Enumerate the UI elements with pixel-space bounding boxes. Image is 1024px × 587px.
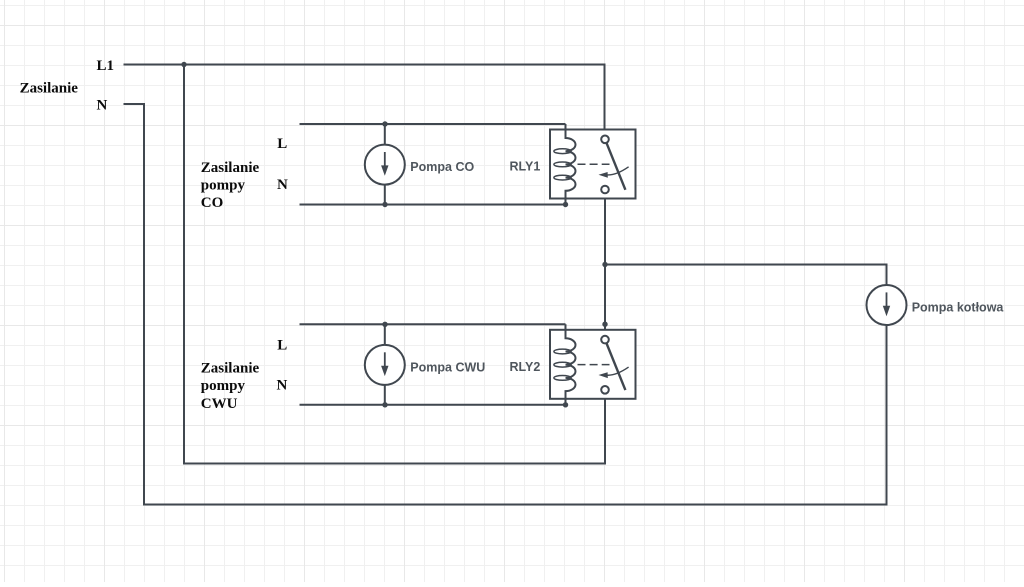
relay RLY2 switch blade: [606, 343, 625, 390]
relay RLY2 actuation arrow: [607, 367, 629, 375]
svg-text:RLY1: RLY1: [510, 160, 541, 174]
relay RLY1 top terminal: [601, 136, 609, 144]
relay RLY2 bottom terminal: [601, 386, 609, 394]
svg-text:RLY2: RLY2: [510, 360, 541, 374]
wire L1 rail: [124, 65, 605, 136]
svg-text:L: L: [277, 338, 287, 354]
relay RLY1 actuation arrow: [607, 167, 629, 175]
svg-text:L: L: [277, 136, 287, 152]
relay RLY2 coil: [566, 324, 576, 405]
wire N of Pompa CWU: [300, 404, 566, 406]
relay RLY2 dashed link: [578, 364, 610, 366]
wire stub pump CO top: [384, 124, 386, 145]
wire stub pump CO bottom: [384, 184, 386, 204]
node junction mid rail: [602, 262, 607, 267]
wire stub pump CWU bottom: [384, 385, 386, 405]
svg-text:N: N: [277, 177, 288, 193]
svg-text:Pompa CWU: Pompa CWU: [410, 361, 485, 375]
relay RLY2 body: [550, 330, 636, 399]
svg-text:L1: L1: [97, 58, 115, 74]
svg-text:Pompa kotłowa: Pompa kotłowa: [912, 300, 1005, 314]
wire branch to Pompa kotlowa: [605, 265, 887, 286]
current source Pompa kotlowa: [867, 285, 907, 325]
svg-text:N: N: [97, 97, 108, 113]
relay RLY1 switch blade: [606, 143, 625, 190]
node junction on L1: [181, 62, 186, 67]
svg-text:pompy: pompy: [201, 177, 246, 193]
relay RLY1 body: [550, 130, 636, 199]
node coil RLY2 bottom terminal: [563, 402, 568, 407]
wire L1 branch down-across to RLY2 contact: [184, 65, 605, 464]
relay RLY2 top terminal: [601, 336, 609, 344]
node on N wire CO: [382, 202, 387, 207]
svg-text:N: N: [277, 378, 288, 394]
wire N down and along bottom to Pompa kotlowa: [124, 104, 887, 505]
wire L of Pompa CWU: [300, 323, 566, 325]
current source Pompa CO: [365, 145, 405, 185]
svg-text:CWU: CWU: [201, 396, 238, 412]
svg-text:Zasilanie: Zasilanie: [201, 361, 260, 377]
node on L wire CWU: [382, 322, 387, 327]
wire N of Pompa CO: [300, 204, 566, 206]
relay RLY1 dashed link: [578, 163, 610, 165]
current source Pompa CWU: [365, 345, 405, 385]
svg-text:CO: CO: [201, 195, 224, 211]
node on N wire CWU: [382, 402, 387, 407]
node coil RLY1 bottom terminal: [563, 202, 568, 207]
node above RLY2: [602, 322, 607, 327]
svg-text:Zasilanie: Zasilanie: [201, 160, 260, 176]
wire stub pump CWU top: [384, 324, 386, 345]
svg-text:pompy: pompy: [201, 378, 246, 394]
relay RLY1 coil: [566, 124, 576, 205]
svg-text:Pompa CO: Pompa CO: [410, 160, 474, 174]
wire L of Pompa CO: [300, 123, 566, 125]
svg-text:Zasilanie: Zasilanie: [20, 81, 79, 97]
node on L wire CO: [382, 121, 387, 126]
relay RLY1 bottom terminal: [601, 186, 609, 194]
wire RLY1 lower contact to RLY2 upper contact: [604, 193, 606, 335]
